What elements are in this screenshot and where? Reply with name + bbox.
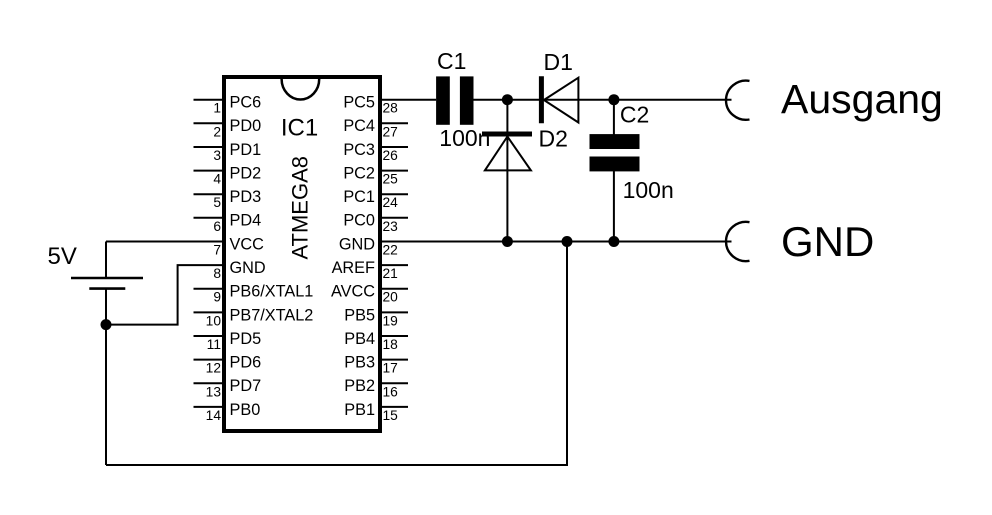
capacitor C1 right plate — [460, 76, 474, 124]
svg-text:Ausgang: Ausgang — [781, 76, 943, 122]
svg-text:20: 20 — [383, 290, 399, 305]
svg-text:4: 4 — [213, 172, 221, 187]
svg-text:7: 7 — [213, 243, 221, 258]
pin 20 stub wire — [380, 288, 408, 290]
wire node down to C2 top plate — [613, 100, 615, 137]
battery B1 positive plate — [71, 277, 143, 280]
svg-text:PB0: PB0 — [230, 401, 261, 419]
svg-text:GND: GND — [230, 259, 266, 277]
pin 21 stub wire — [380, 264, 408, 266]
svg-text:D2: D2 — [539, 126, 568, 152]
junction node C1/D1/D2 — [502, 94, 513, 105]
svg-text:PB5: PB5 — [344, 306, 375, 324]
pin 24 stub wire — [380, 193, 408, 195]
svg-text:C1: C1 — [437, 48, 466, 74]
pin 25 stub wire — [380, 170, 408, 172]
svg-text:26: 26 — [383, 148, 399, 163]
svg-text:100n: 100n — [439, 125, 490, 151]
svg-text:22: 22 — [383, 243, 398, 258]
capacitor C2 bottom plate — [590, 157, 640, 172]
svg-text:PD2: PD2 — [230, 165, 262, 183]
pin 18 stub wire — [380, 335, 408, 337]
svg-text:PB6/XTAL1: PB6/XTAL1 — [230, 283, 314, 301]
svg-text:PD4: PD4 — [230, 212, 262, 230]
wire battery minus down to bottom rail — [105, 289, 107, 465]
svg-text:PD7: PD7 — [230, 377, 262, 395]
junction node battery minus — [101, 319, 112, 330]
svg-text:PC0: PC0 — [343, 212, 375, 230]
junction node D2 anode on GND rail — [502, 236, 513, 247]
pin 27 stub wire — [380, 122, 408, 124]
svg-text:PC1: PC1 — [343, 188, 375, 206]
svg-text:21: 21 — [383, 266, 398, 281]
pin 16 stub wire — [380, 382, 408, 384]
svg-text:6: 6 — [213, 219, 221, 234]
IC IC1 (ATMEGA8) body — [224, 77, 380, 431]
diode D1 cathode bar — [539, 76, 544, 123]
diode D2 cathode bar — [482, 132, 532, 137]
svg-text:27: 27 — [383, 124, 398, 139]
svg-text:28: 28 — [383, 101, 399, 116]
connector pin Ausgang (open arc) — [726, 81, 749, 120]
pin 3 stub wire — [194, 146, 225, 148]
svg-text:15: 15 — [383, 408, 399, 423]
svg-text:VCC: VCC — [230, 235, 265, 253]
svg-text:PB2: PB2 — [344, 377, 375, 395]
svg-text:11: 11 — [207, 337, 221, 352]
svg-text:5V: 5V — [48, 243, 77, 270]
wire C2 bottom plate to GND rail — [613, 168, 615, 242]
pin 28 wire to C1 — [380, 99, 436, 101]
svg-text:D1: D1 — [544, 49, 573, 75]
svg-text:10: 10 — [206, 313, 222, 328]
wire node down through D2 to GND rail — [506, 100, 508, 242]
svg-text:PB7/XTAL2: PB7/XTAL2 — [230, 306, 314, 324]
pin 4 stub wire — [194, 170, 225, 172]
pin 12 stub wire — [194, 359, 225, 361]
connector pin GND (open arc) — [726, 222, 749, 261]
junction node C2 on GND rail — [608, 236, 619, 247]
svg-text:GND: GND — [781, 218, 874, 265]
svg-text:8: 8 — [213, 266, 221, 281]
svg-text:3: 3 — [213, 148, 221, 163]
svg-text:PD1: PD1 — [230, 141, 262, 159]
pin 8 GND wire to battery minus node — [106, 265, 224, 325]
pin 14 stub wire — [194, 406, 225, 408]
pin 7 VCC wire from battery — [106, 241, 224, 243]
svg-text:100n: 100n — [623, 177, 674, 203]
svg-text:16: 16 — [383, 384, 399, 399]
pin 9 stub wire — [194, 288, 225, 290]
svg-text:GND: GND — [339, 235, 375, 253]
svg-text:PC5: PC5 — [343, 94, 375, 112]
svg-text:9: 9 — [213, 290, 221, 305]
svg-text:PD6: PD6 — [230, 354, 262, 372]
pin 15 stub wire — [380, 406, 408, 408]
pin 5 stub wire — [194, 193, 225, 195]
svg-text:25: 25 — [383, 172, 399, 187]
wire C1 to D1 — [474, 99, 579, 101]
svg-text:5: 5 — [213, 195, 221, 210]
capacitor C2 top plate — [590, 134, 640, 149]
svg-text:PC2: PC2 — [343, 165, 375, 183]
svg-text:PC4: PC4 — [343, 117, 375, 135]
svg-text:PB3: PB3 — [344, 354, 375, 372]
svg-text:18: 18 — [383, 337, 399, 352]
svg-text:1: 1 — [213, 101, 221, 116]
svg-text:23: 23 — [383, 219, 399, 234]
battery B1 negative plate — [89, 287, 125, 290]
svg-text:13: 13 — [206, 384, 222, 399]
pin 23 stub wire — [380, 217, 408, 219]
svg-text:C2: C2 — [620, 101, 649, 127]
svg-text:PC3: PC3 — [343, 141, 375, 159]
capacitor C1 left plate — [436, 76, 450, 124]
pin 1 stub wire — [194, 99, 225, 101]
wire battery plus to VCC corner — [105, 242, 107, 279]
pin 22 GND rail wire to GND connector — [380, 241, 732, 243]
diode D1 triangle (anode right) — [544, 78, 579, 123]
pin 11 stub wire — [194, 335, 225, 337]
svg-text:PB4: PB4 — [344, 330, 375, 348]
pin 2 stub wire — [194, 122, 225, 124]
junction node bottom return on GND rail — [562, 236, 573, 247]
svg-text:PB1: PB1 — [344, 401, 375, 419]
svg-text:AREF: AREF — [332, 259, 375, 277]
svg-text:AVCC: AVCC — [331, 283, 375, 301]
junction node D1/C2 — [608, 94, 619, 105]
pin 6 stub wire — [194, 217, 225, 219]
svg-text:PD5: PD5 — [230, 330, 262, 348]
svg-text:17: 17 — [383, 361, 398, 376]
svg-text:24: 24 — [383, 195, 399, 210]
svg-text:12: 12 — [206, 361, 221, 376]
svg-text:PD0: PD0 — [230, 117, 262, 135]
svg-text:ATMEGA8: ATMEGA8 — [288, 156, 313, 260]
diode D2 triangle (anode below) — [485, 137, 531, 171]
svg-text:19: 19 — [383, 313, 399, 328]
svg-text:PC6: PC6 — [230, 94, 262, 112]
wire D1 to Ausgang connector — [578, 99, 731, 101]
pin 10 stub wire — [194, 311, 225, 313]
svg-text:14: 14 — [206, 408, 222, 423]
pin 17 stub wire — [380, 359, 408, 361]
svg-text:IC1: IC1 — [281, 115, 318, 142]
svg-text:PD3: PD3 — [230, 188, 262, 206]
svg-text:2: 2 — [213, 124, 221, 139]
pin 19 stub wire — [380, 311, 408, 313]
pin 13 stub wire — [194, 382, 225, 384]
pin 26 stub wire — [380, 146, 408, 148]
wire bottom ground return — [106, 242, 567, 466]
